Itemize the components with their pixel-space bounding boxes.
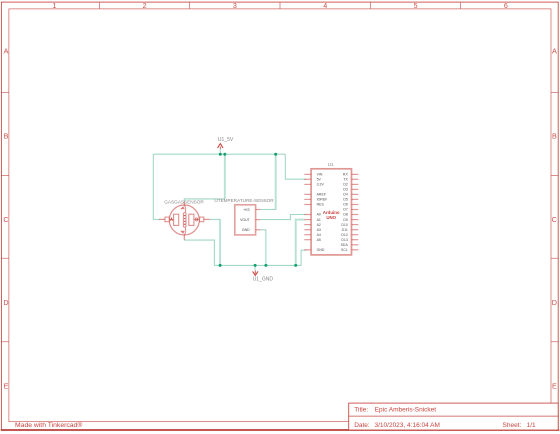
svg-text:B: B — [4, 132, 9, 141]
svg-text:UNO: UNO — [326, 215, 336, 220]
gas sensor pin H1 — [183, 202, 185, 206]
svg-text:AREF: AREF — [317, 193, 326, 197]
svg-text:GND: GND — [242, 228, 250, 232]
svg-text:D13: D13 — [341, 238, 347, 242]
gas sensor heater coil — [183, 213, 186, 227]
wire 5V left drop to gas A pin — [153, 154, 159, 219]
gas sensor electrode left — [174, 214, 179, 225]
svg-text:A5: A5 — [317, 238, 321, 242]
svg-text:D10: D10 — [341, 223, 347, 227]
svg-text:D5: D5 — [343, 198, 348, 202]
svg-text:SDA: SDA — [341, 243, 349, 247]
wire U1_5V symbol stub — [219, 149, 221, 155]
wire temp GND to GND — [260, 230, 266, 266]
svg-text:2: 2 — [143, 1, 147, 10]
svg-text:1/1: 1/1 — [527, 422, 536, 429]
junction 5V symbol — [219, 153, 222, 156]
junction GND symbol — [254, 264, 257, 267]
svg-text:5V: 5V — [317, 178, 322, 182]
gas sensor body — [169, 205, 199, 235]
temperature sensor pin +VS — [256, 209, 261, 211]
svg-text:3/10/2023, 4:16:04 AM: 3/10/2023, 4:16:04 AM — [375, 422, 440, 429]
title block — [349, 403, 559, 430]
svg-text:6: 6 — [504, 1, 508, 10]
svg-text:Title:: Title: — [354, 407, 368, 414]
svg-text:VIN: VIN — [317, 173, 323, 177]
gas sensor heater lead top — [184, 205, 185, 213]
wire temp VOUT to U1 A0 — [260, 215, 306, 220]
svg-text:D11: D11 — [342, 228, 348, 232]
svg-text:A3: A3 — [317, 228, 321, 232]
wire 5V to temp +VS vertical — [275, 154, 277, 209]
gas sensor electrode right — [189, 214, 194, 225]
gas sensor pin label A — [170, 218, 172, 221]
wire 5V to temp +VS horizontal — [260, 209, 275, 211]
svg-text:A4: A4 — [317, 233, 321, 237]
junction heater branch — [223, 153, 226, 156]
wire GND bottom horizontal — [214, 264, 301, 266]
arduino left pin labels — [317, 173, 328, 252]
svg-text:+VS: +VS — [243, 208, 250, 212]
svg-text:Epic Amberis-Snicket: Epic Amberis-Snicket — [375, 407, 437, 414]
svg-text:A1: A1 — [317, 218, 321, 222]
gas sensor pin H2 — [183, 235, 185, 241]
gas sensor pad A — [165, 217, 169, 222]
svg-text:D2: D2 — [343, 183, 348, 187]
svg-text:A: A — [4, 46, 9, 55]
svg-text:D: D — [3, 298, 8, 307]
svg-text:U1_5V: U1_5V — [218, 137, 234, 143]
svg-text:B: B — [552, 132, 557, 141]
wire 5V to gas H1 vertical — [224, 154, 226, 199]
junction +VS branch — [274, 153, 277, 156]
svg-text:D9: D9 — [343, 218, 348, 222]
svg-text:Made with Tinkercad®: Made with Tinkercad® — [15, 421, 82, 429]
svg-text:D8: D8 — [343, 213, 348, 217]
svg-text:D4: D4 — [343, 193, 348, 197]
svg-text:E: E — [4, 381, 9, 390]
svg-text:RES: RES — [317, 203, 325, 207]
svg-text:SCL: SCL — [341, 248, 348, 252]
svg-text:U1: U1 — [328, 162, 334, 167]
svg-text:IOREF: IOREF — [317, 198, 328, 202]
svg-text:D: D — [552, 298, 557, 307]
svg-text:Sheet:: Sheet: — [503, 422, 522, 429]
power symbol U1_5V — [218, 137, 234, 149]
junction temp GND — [264, 264, 267, 267]
svg-text:D6: D6 — [343, 203, 348, 207]
svg-text:U1_GND: U1_GND — [253, 276, 274, 282]
svg-text:Date:: Date: — [354, 422, 370, 429]
gas sensor pin A stub — [159, 218, 165, 220]
junction A1 drop — [294, 264, 297, 267]
svg-text:C: C — [552, 215, 557, 224]
wire gas B to GND vertical — [219, 219, 221, 265]
temperature sensor body — [235, 205, 256, 235]
svg-text:TX: TX — [343, 178, 348, 182]
wire 5V to U1 5V pin — [285, 154, 306, 179]
arduino body — [311, 169, 351, 255]
temperature sensor pin VOUT — [256, 219, 261, 221]
arduino right pin labels — [341, 173, 349, 252]
wire gas H2 to GND — [184, 240, 214, 265]
svg-text:5: 5 — [414, 1, 418, 10]
wire U1 A1 to GND — [296, 220, 305, 266]
wire 5V to gas H1 horizontal — [184, 199, 225, 202]
gas sensor heater lead bottom — [184, 227, 185, 235]
svg-text:D3: D3 — [343, 188, 348, 192]
wire U1_GND symbol stub — [254, 265, 256, 270]
junction gas B — [219, 264, 222, 267]
svg-text:UTEMPERATURE-SENSOR: UTEMPERATURE-SENSOR — [214, 198, 274, 203]
svg-text:A2: A2 — [317, 223, 321, 227]
wire gas B to GND horizontal — [210, 218, 221, 220]
svg-text:VOUT: VOUT — [240, 218, 249, 222]
gas sensor pin label B — [196, 218, 198, 221]
wire 5V top horizontal — [153, 153, 285, 155]
ground symbol U1_GND — [253, 271, 274, 283]
svg-text:3.3V: 3.3V — [317, 183, 325, 187]
svg-text:4: 4 — [323, 1, 327, 10]
arduino left pin stubs — [304, 174, 311, 249]
svg-text:RX: RX — [343, 173, 349, 177]
svg-text:D12: D12 — [341, 233, 347, 237]
svg-text:3: 3 — [233, 1, 237, 10]
wire GND to U1 GND pin — [301, 250, 306, 265]
svg-text:D7: D7 — [343, 208, 348, 212]
svg-text:1: 1 — [52, 1, 56, 10]
svg-text:A0: A0 — [317, 213, 321, 217]
gas sensor pad B — [200, 217, 204, 222]
svg-text:C: C — [3, 215, 8, 224]
gas sensor pin B stub — [204, 218, 210, 220]
svg-text:GND: GND — [317, 248, 325, 252]
svg-text:A: A — [552, 46, 557, 55]
arduino right pin stubs — [352, 174, 359, 249]
svg-text:E: E — [552, 381, 557, 390]
temperature sensor pin GND — [256, 229, 261, 231]
